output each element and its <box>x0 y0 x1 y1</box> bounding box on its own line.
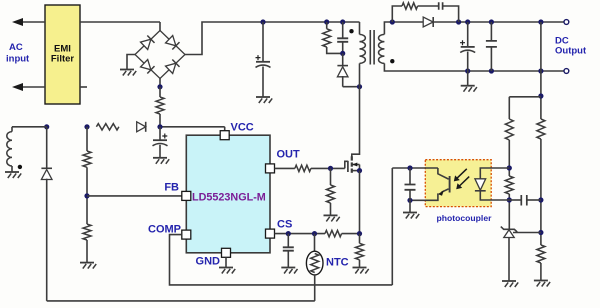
svg-text:photocoupler: photocoupler <box>437 213 493 223</box>
svg-text:Filter: Filter <box>51 54 75 65</box>
svg-text:GND: GND <box>196 256 221 268</box>
svg-text:AC: AC <box>9 42 23 53</box>
svg-text:VCC: VCC <box>231 122 254 134</box>
svg-text:input: input <box>6 54 30 65</box>
svg-text:CS: CS <box>277 219 292 231</box>
svg-text:FB: FB <box>164 182 179 194</box>
svg-text:NTC: NTC <box>326 257 349 269</box>
svg-text:COMP: COMP <box>148 224 181 236</box>
svg-text:LD5523NGL-M: LD5523NGL-M <box>192 192 266 204</box>
svg-text:OUT: OUT <box>277 149 301 161</box>
svg-text:Output: Output <box>555 45 587 56</box>
